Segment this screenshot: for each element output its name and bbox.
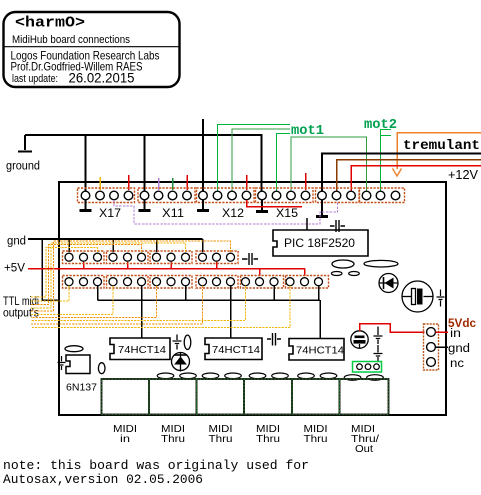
board (59, 182, 446, 415)
legend box (4, 12, 180, 87)
svg-text:MidiHub board connections: MidiHub board connections (12, 34, 130, 46)
drop B2p3 (141, 286, 143, 338)
wire brown to edge (337, 160, 481, 192)
pins B2 (109, 278, 117, 286)
pad oval tall near U2 (184, 335, 191, 349)
svg-text:X15: X15 (276, 208, 298, 220)
wire red to edge (351, 166, 481, 192)
ttl wire 9 (31, 286, 203, 324)
ttl wire 4 (31, 241, 231, 311)
capacitor C2 right of C1 (437, 290, 445, 307)
pad oval right of 6N137 (98, 363, 105, 374)
svg-text:mot1: mot1 (291, 124, 324, 139)
ground sym X12p1 (202, 200, 204, 209)
svg-text:+5V: +5V (4, 263, 25, 275)
connector J5V 3pin (424, 324, 439, 370)
pins B6 (286, 278, 294, 286)
wire tremulant orange (397, 133, 481, 170)
stub red X11p4 (186, 175, 188, 190)
svg-text:PIC 18F2520: PIC 18F2520 (284, 238, 355, 250)
MIDDLE CONNECTORS (63, 251, 329, 288)
capacitor left of 6N137 (58, 356, 66, 370)
pins X17 (81, 191, 90, 200)
connector X17 (78, 188, 135, 203)
svg-text:Thru: Thru (304, 434, 328, 445)
svg-text:tremulant: tremulant (403, 138, 480, 154)
stub red X17p4 (128, 175, 130, 190)
ttl wire 10 (31, 286, 290, 328)
capacitor right of U3 (267, 333, 281, 346)
socket MIDI thru 4 (292, 379, 340, 415)
connector B2 (107, 276, 149, 289)
pad oval mid right (364, 260, 398, 267)
TOP CONNECTOR ROW (78, 188, 405, 203)
LED D2 (172, 352, 190, 372)
pad small a (331, 272, 342, 276)
connector B3 (150, 276, 192, 289)
svg-text:X11: X11 (162, 208, 184, 220)
YELLOW WIRES (31, 241, 290, 328)
svg-text:<harmO>: <harmO> (15, 15, 85, 32)
wire mot1 b (232, 129, 290, 191)
ground symbol left (18, 135, 32, 152)
RIGHT SIDE WIRES (322, 133, 481, 192)
stub red X12p4 (246, 175, 248, 190)
connector X15 (256, 188, 314, 203)
ttl wire 5 (31, 286, 69, 301)
svg-text:nc: nc (450, 358, 464, 370)
wire red in (436, 331, 449, 333)
wire black to edge (322, 154, 481, 192)
orange arrow head (393, 169, 402, 177)
connector G5 (316, 188, 360, 203)
socket green speckle (102, 379, 389, 415)
capacitor C4 (374, 345, 383, 362)
wire red X12p4 down (247, 200, 303, 207)
svg-text:26.02.2015: 26.02.2015 (69, 70, 135, 86)
optocoupler 6N137 (66, 355, 97, 394)
ground sym G5p1 (321, 200, 323, 215)
svg-text:Thru: Thru (161, 434, 185, 445)
gnd drop b1 (68, 239, 70, 252)
svg-text:Thru: Thru (209, 434, 233, 445)
socket MIDI thru 2 (197, 379, 245, 415)
wire mot1 c (277, 134, 291, 192)
+5V up b1 (83, 262, 85, 269)
gnd drop b4 (202, 239, 204, 252)
pins T4 (199, 253, 207, 261)
pins T1 (65, 253, 73, 261)
svg-text:Thru: Thru (256, 434, 280, 445)
connector B5 (241, 276, 284, 289)
gnd bus mid (28, 238, 203, 240)
capacitor above PIC (330, 220, 345, 232)
pins B1 (65, 278, 73, 286)
transistor Q1 circle (351, 331, 368, 348)
gnd drop b3 (156, 239, 158, 252)
black bus (98, 299, 321, 301)
wire gnd to board edge (42, 239, 59, 300)
pins G5 (318, 191, 327, 200)
wire ground drop X11 (144, 135, 146, 191)
drop B4p3 (230, 286, 232, 338)
stub green X11p3 (172, 178, 174, 190)
wire mot2 b (381, 135, 392, 137)
BLACK BUS under bottom row (98, 286, 321, 338)
svg-text:74HCT14: 74HCT14 (212, 344, 260, 356)
drop B6p3 (318, 286, 320, 300)
svg-text:74HCT14: 74HCT14 (118, 344, 166, 356)
op-amp PIC 18F2520 (273, 230, 368, 256)
connector T2 (107, 251, 149, 264)
ttl wire 3 (31, 243, 186, 308)
stub purple X11p2 (158, 178, 160, 190)
svg-text:X12: X12 (222, 208, 244, 220)
pins B4 (199, 278, 207, 286)
LED D1 (379, 274, 398, 293)
wire purple X17p3 to G5p2 (114, 200, 338, 224)
IC U2 74HCT14 (110, 338, 170, 360)
svg-text:ground: ground (6, 161, 40, 173)
IC U3 74HCT14 (205, 338, 262, 360)
pad oval above 6N137 (65, 346, 83, 352)
connector T1 (63, 251, 105, 264)
connector T3 (150, 251, 192, 264)
+5V up b4 (216, 262, 218, 269)
socket MIDI thru 1 (149, 379, 197, 415)
pins X15 (258, 191, 267, 200)
ground sym X17p1 (85, 200, 87, 209)
connector X12 (197, 188, 255, 203)
wire ground drop X12 (202, 119, 204, 191)
ground sym X15p1 (261, 200, 263, 210)
ttl wire 2 (31, 245, 142, 305)
TOP ROW STUBS (100, 173, 306, 190)
connector G6 (360, 188, 405, 203)
IC U4 74HCT14 (289, 339, 344, 361)
svg-text:+12V: +12V (448, 167, 478, 182)
svg-text:gnd: gnd (448, 343, 470, 355)
stub red X15p4 (305, 173, 307, 190)
pads row above MIDI (157, 373, 383, 380)
+5V bus (28, 268, 305, 270)
svg-text:74HCT14: 74HCT14 (296, 345, 344, 357)
ground sym X11p1 (144, 200, 146, 209)
pad small b (349, 272, 360, 276)
stub PIC top (306, 218, 308, 230)
wire red 5V to connector (360, 324, 425, 333)
MIDI sockets row (102, 379, 389, 415)
pins B5 (242, 278, 250, 286)
electrolytic capacitor C1 in circle (402, 281, 433, 312)
svg-text:Out: Out (355, 444, 373, 455)
svg-text:mot2: mot2 (364, 118, 397, 133)
svg-text:in: in (120, 434, 130, 445)
connector X11 (138, 188, 195, 203)
ttl wire 8 (31, 286, 246, 321)
wire mot1 a (218, 125, 291, 192)
ttl wire 1 (31, 248, 98, 298)
connector B6 (286, 276, 329, 289)
drop B1p3 (97, 286, 99, 300)
svg-text:note: this board was originaly: note: this board was originaly used for (3, 459, 309, 473)
pins T3 (153, 253, 161, 261)
gnd drop b2 (112, 239, 114, 252)
wire ground drop X17 (85, 135, 87, 191)
socket MIDI thru out (340, 379, 389, 415)
svg-text:gnd: gnd (7, 236, 26, 248)
pins B3 (153, 278, 161, 286)
+5V down b5 (259, 269, 261, 277)
connector J6 green 3pin (353, 362, 382, 373)
svg-text:TTL midi: TTL midi (3, 296, 39, 308)
+5V up b2 (127, 262, 129, 269)
wire gnd out (436, 346, 449, 348)
+5V down b6 (304, 269, 306, 277)
socket MIDI thru 3 (244, 379, 292, 415)
pins T2 (109, 253, 117, 261)
connector B4 (196, 276, 238, 289)
svg-text:in: in (450, 328, 461, 340)
svg-text:Autosax,version 02.05.2006: Autosax,version 02.05.2006 (3, 473, 203, 487)
socket MIDI in (102, 379, 150, 415)
stub yellow X17p2 (99, 177, 101, 190)
svg-text:X17: X17 (99, 208, 121, 220)
pins X11 (140, 191, 149, 200)
wire X15 pin3 to G6 pin1 (291, 137, 367, 191)
capacitor C3 (374, 327, 383, 345)
pins X12 (199, 191, 208, 200)
svg-text:6N137: 6N137 (66, 382, 97, 394)
svg-text:last update:: last update: (12, 73, 58, 85)
connector T4 (196, 251, 238, 264)
ground bus top (25, 135, 262, 191)
ttl wire 6 (31, 286, 113, 315)
pins G6 (362, 191, 371, 200)
drop B3p3 (185, 286, 187, 300)
+5V up b3 (170, 262, 172, 269)
pad oval mid left (332, 260, 354, 268)
connector B1 (63, 276, 105, 289)
bus to box3 (319, 300, 321, 338)
GREEN MOT WIRES (218, 125, 392, 192)
capacitor C5 vertical near U2 (173, 335, 182, 350)
drop B5p3 (273, 286, 275, 300)
ttl wire 7 (31, 286, 157, 318)
capacitor right of T4 (242, 253, 258, 265)
wire mot2 a (381, 130, 392, 192)
